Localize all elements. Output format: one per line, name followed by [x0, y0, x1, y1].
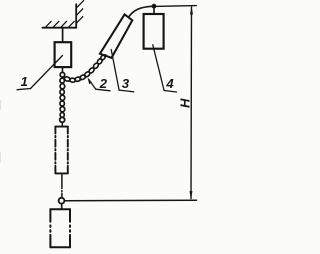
leader line for label 4 — [153, 45, 164, 91]
vertical chain links — [60, 78, 65, 117]
stub to upper weight — [61, 122, 63, 126]
top dimension arrow — [190, 6, 193, 14]
leader line for label 3 — [111, 50, 119, 91]
junction dot — [152, 4, 157, 9]
upper weight (rod with dash-dot sides) — [55, 127, 67, 174]
svg-text:2: 2 — [99, 76, 108, 91]
stub from dot to box 4 — [153, 6, 155, 14]
faint scan marks on left edge — [0, 100, 1, 163]
ring below box 1 — [60, 72, 65, 77]
diagonal chain links to cylinder 3 — [64, 54, 106, 82]
rope from cylinder 3 to junction dot — [128, 6, 153, 17]
rod from support to box 1 — [62, 28, 64, 43]
svg-text:1: 1 — [21, 74, 28, 89]
bottom dimension arrow — [190, 191, 193, 199]
leader line for label 2 with arrow — [89, 79, 96, 89]
axis between weights (dash-dot) — [61, 173, 63, 188]
top extension line — [154, 5, 196, 8]
bottom extension line — [64, 199, 196, 202]
lower weight (with dash-dot break in sides) — [50, 209, 70, 247]
support wall vertical line — [75, 4, 77, 27]
svg-text:3: 3 — [122, 76, 130, 91]
stub below box 1 — [62, 67, 64, 72]
svg-text:4: 4 — [165, 76, 174, 91]
underline of label 1 — [17, 89, 30, 90]
svg-text:H: H — [178, 98, 193, 108]
hatching on horizontal support — [46, 21, 75, 27]
underline of label 2 — [96, 89, 110, 91]
underline of label 3 — [119, 90, 134, 92]
chain terminal ring at weight hook — [60, 117, 65, 122]
cylinder 3 (damper), slanted rectangle — [100, 14, 132, 58]
support wall horizontal line — [42, 27, 76, 29]
box 1 (vibration exciter) — [55, 42, 72, 67]
underline of label 4 — [164, 91, 176, 93]
stub to lower weight — [61, 204, 63, 210]
hatching on vertical support — [76, 1, 83, 24]
box 4 — [144, 14, 164, 49]
hook ring above lower weight — [59, 198, 65, 204]
dimension line H — [190, 7, 193, 199]
leader line for label 1 — [31, 56, 63, 89]
link from chain to cylinder 3 — [104, 55, 105, 56]
